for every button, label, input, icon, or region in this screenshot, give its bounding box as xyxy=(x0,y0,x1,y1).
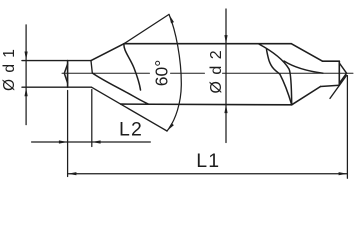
L2 right arrow (points left) xyxy=(92,140,101,143)
arc bottom arrow xyxy=(167,123,174,131)
svg-text:L2: L2 xyxy=(119,119,143,141)
Od1 bottom arrow (up) xyxy=(25,87,28,96)
arrowheads xyxy=(25,14,348,175)
right cone top edge xyxy=(291,44,322,62)
flute helix on cone (S2) xyxy=(92,73,148,104)
right flute inner edge (T') xyxy=(267,50,292,105)
right pilot top edge xyxy=(323,60,340,62)
60 deg upper dimension line xyxy=(124,14,169,43)
Od2 bottom arrow (up) xyxy=(224,104,227,113)
60 deg arc xyxy=(167,14,181,131)
left chisel point xyxy=(64,64,67,83)
body top edge xyxy=(124,43,291,45)
L1 dimension line xyxy=(68,173,348,175)
svg-text:L1: L1 xyxy=(196,150,220,172)
svg-text:Ø d 1: Ø d 1 xyxy=(1,48,18,91)
L2 left arrow (points right) xyxy=(59,140,68,143)
L1 left arrow (points left) xyxy=(68,172,77,175)
svg-text:60°: 60° xyxy=(151,60,171,86)
right tip relief edge (V') xyxy=(330,76,346,99)
right cone bottom edge xyxy=(292,87,321,105)
Od2 dimension line xyxy=(225,9,227,143)
flute lip on pilot xyxy=(91,61,92,73)
L1/L2 left extension line xyxy=(67,91,69,177)
right flute shallow edge (U') xyxy=(284,61,323,73)
cone top edge xyxy=(91,44,124,61)
right pilot end face xyxy=(338,61,340,85)
cone bottom edge + 60 deg lower dimension line xyxy=(92,87,168,131)
L2 right extension line xyxy=(91,90,93,147)
svg-text:Ø d 2: Ø d 2 xyxy=(208,49,225,93)
pilot left end face xyxy=(67,61,69,88)
pilot bottom edge with extension line xyxy=(22,86,92,88)
centerline xyxy=(62,72,353,74)
Od1 dimension line xyxy=(25,25,27,125)
right pilot bottom edge xyxy=(321,85,340,86)
Od1 top arrow (down) xyxy=(25,52,28,61)
Od2 top arrow (down) xyxy=(224,35,227,44)
right flute outer edge (S2') xyxy=(259,44,292,105)
L2 dimension line xyxy=(32,141,151,143)
body bottom edge xyxy=(121,103,292,106)
pilot top edge with extension line xyxy=(22,60,91,62)
L1 right extension line xyxy=(346,76,348,179)
right chisel point xyxy=(339,63,346,83)
arc top arrow xyxy=(169,14,174,23)
L1 right arrow (points right) xyxy=(339,172,348,175)
flute facet edge (S1) xyxy=(124,44,141,90)
